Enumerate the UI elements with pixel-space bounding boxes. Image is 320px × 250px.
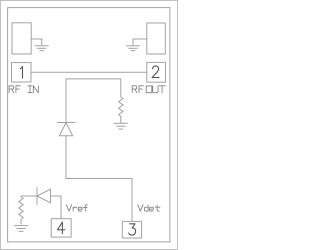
diode D2 (reference)	[37, 187, 51, 204]
ground (reference)	[14, 226, 28, 232]
pin label Vref	[66, 205, 87, 211]
wire main RF path pin1 to pin2	[31, 71, 147, 73]
resistor (reference bias)	[19, 196, 23, 224]
wire detector diode to Vdet pin	[66, 136, 132, 222]
pin label RF IN	[9, 86, 38, 93]
ground (top-left)	[35, 46, 49, 51]
wire top-right block to ground	[133, 39, 147, 45]
pin 4 box	[51, 219, 71, 237]
diode D1 (detector)	[57, 123, 75, 136]
pin 2 number	[152, 66, 159, 77]
block (top-right)	[147, 23, 166, 54]
wire coupled line	[66, 79, 121, 123]
ground (termination)	[114, 123, 128, 129]
wire top-left block to ground	[31, 39, 42, 45]
pin 2 box	[147, 62, 166, 82]
pin 3 box	[122, 221, 141, 238]
resistor (coupled line termination)	[119, 97, 123, 123]
pin label RF OUT	[132, 86, 165, 93]
pin 3 number	[129, 224, 136, 235]
ground (top-right)	[126, 46, 140, 51]
pin 1 number	[20, 67, 22, 79]
wire reference diode to pin 4	[51, 196, 62, 219]
wire resistor to reference diode	[21, 195, 37, 197]
pin label Vdet	[138, 205, 160, 211]
block (top-left)	[12, 23, 31, 54]
pin 1 box	[12, 63, 32, 82]
pin 4 number	[58, 222, 65, 234]
